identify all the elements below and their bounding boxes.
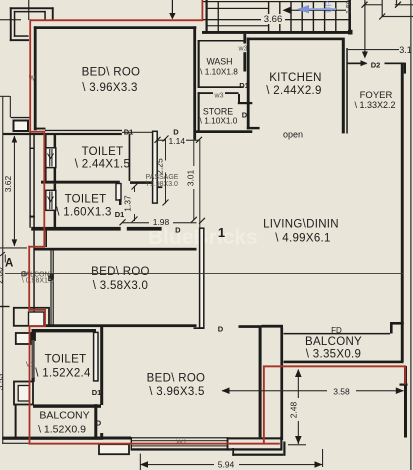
- foyer top right corner stub: [404, 63, 406, 74]
- svg-text:D: D: [218, 325, 224, 334]
- corner column top-left inner: [14, 11, 46, 37]
- stair treads: [218, 1, 337, 32]
- small tick below A: [0, 252, 5, 256]
- svg-text:1.98: 1.98: [153, 217, 170, 227]
- A marker: [5, 255, 14, 270]
- staircase top line: [202, 1, 351, 2]
- svg-text:D1: D1: [92, 388, 102, 397]
- svg-text:D: D: [175, 226, 181, 235]
- svg-text:\ 1.10X1.8: \ 1.10X1.8: [200, 67, 238, 77]
- svg-text:KITCHEN: KITCHEN: [269, 72, 322, 84]
- kitchen walls: [247, 38, 345, 134]
- 3.66 dim label: [261, 14, 285, 25]
- svg-text:BALCONY: BALCONY: [39, 410, 89, 422]
- svg-text:D1: D1: [124, 128, 134, 137]
- dim 1.98: [120, 217, 206, 227]
- svg-text:1: 1: [218, 225, 225, 240]
- svg-text:3.53: 3.53: [0, 373, 5, 390]
- wash room walls: [198, 40, 244, 88]
- svg-text:1.37: 1.37: [122, 195, 132, 212]
- toilet 1 window: [46, 148, 56, 168]
- toilet 1 left wall: [54, 135, 57, 182]
- dim 5.94: [140, 449, 323, 470]
- corner column top-left outer: [10, 7, 54, 41]
- svg-text:BALCONY: BALCONY: [305, 336, 362, 348]
- svg-text:\ 1.98X3.0: \ 1.98X3.0: [146, 181, 178, 188]
- bedroom 2 walls: [30, 248, 197, 327]
- svg-text:\ 1.52X2.4: \ 1.52X2.4: [35, 368, 91, 380]
- bedroom 3 walls: [97, 325, 284, 440]
- thin line bottom left: [2, 443, 29, 444]
- living wall bottom foot: [194, 327, 205, 329]
- toilet 2 right wall: [116, 184, 122, 206]
- svg-text:BED\ ROO: BED\ ROO: [91, 266, 150, 278]
- left edge stub line: [0, 306, 10, 307]
- toilet 1 door jamb bar: [153, 131, 158, 203]
- foyer top door line: [347, 63, 367, 65]
- balcony 3 walls: [2, 404, 103, 440]
- toilet 3 right wall hollow: [94, 332, 98, 381]
- toilet 3 left wall gray band: [32, 340, 35, 378]
- staircase mid landing line: [202, 19, 351, 20]
- svg-text:\ 3.35X0.9: \ 3.35X0.9: [306, 349, 361, 361]
- svg-text:D: D: [96, 419, 102, 428]
- window column left wall: [11, 117, 31, 131]
- svg-text:\ 1.10X1.0: \ 1.10X1.0: [200, 116, 238, 126]
- store bottom thick wall: [196, 130, 252, 133]
- staircase flight line: [207, 8, 269, 9]
- toilet 2 left wall: [54, 184, 57, 228]
- svg-text:w3: w3: [238, 46, 248, 53]
- svg-text:1.14: 1.14: [169, 136, 186, 146]
- window W1: [131, 437, 283, 450]
- section line A-A: [5, 272, 404, 275]
- toilet 1 box: [31, 134, 162, 231]
- column box mid-left outer: [14, 308, 49, 326]
- dim 3.58 bottom right: [222, 386, 404, 397]
- svg-text:\ 3.96X3.3: \ 3.96X3.3: [82, 82, 137, 94]
- outer boundary right line: [410, 0, 411, 470]
- svg-text:TOILET: TOILET: [65, 194, 107, 206]
- store room walls: [198, 92, 240, 131]
- vertical dim line x364: [364, 0, 365, 56]
- svg-text:BED\ ROO: BED\ ROO: [147, 373, 206, 385]
- dim 2.48: [288, 369, 306, 445]
- dim 1.37: [122, 184, 137, 223]
- svg-text:5.94: 5.94: [218, 460, 235, 470]
- svg-text:BED\ ROO: BED\ ROO: [82, 67, 141, 79]
- svg-text:\ 1.33X2.2: \ 1.33X2.2: [354, 100, 395, 110]
- toilet 2 window: [46, 190, 56, 210]
- column box bottom-left inner: [18, 386, 29, 402]
- wash door sill: [238, 102, 253, 104]
- top line above A area: [0, 247, 27, 248]
- svg-text:w3: w3: [214, 93, 224, 100]
- passage-living wall (hollow): [200, 228, 204, 328]
- dim 2.25: [154, 136, 170, 206]
- thin extension line x199: [199, 140, 200, 228]
- svg-text:3.1: 3.1: [399, 45, 412, 55]
- svg-text:\ 2.44X1.5: \ 2.44X1.5: [75, 159, 130, 171]
- balcony 2 walls: [284, 322, 408, 438]
- bottom right corner pieces: [232, 437, 285, 456]
- svg-text:\ 3.58X3.0: \ 3.58X3.0: [93, 280, 148, 292]
- svg-text:3.58: 3.58: [333, 387, 350, 397]
- section tick circle: [22, 271, 26, 275]
- side balcony strip walls: [29, 132, 47, 325]
- svg-text:3.62: 3.62: [3, 175, 13, 192]
- svg-text:open: open: [283, 130, 303, 140]
- stair direction line with arrow: [283, 7, 347, 14]
- left top tick: [0, 96, 10, 97]
- svg-text:TOILET: TOILET: [82, 146, 124, 158]
- svg-text:FD: FD: [331, 326, 342, 335]
- svg-text:TOILET: TOILET: [45, 354, 87, 366]
- bedroom 1 walls: [3, 26, 197, 140]
- top-right dim lines: [365, 0, 413, 17]
- foyer left wall line: [346, 48, 348, 134]
- staircase landing junction blob: [348, 30, 353, 35]
- dim 3.62 left: [3, 136, 17, 247]
- svg-text:LIVING\DININ: LIVING\DININ: [263, 219, 339, 231]
- svg-text:UP: UP: [324, 1, 334, 13]
- svg-text:\ 2.44X2.9: \ 2.44X2.9: [266, 85, 321, 97]
- column box mid-left inner: [29, 312, 45, 326]
- living east wall: [401, 63, 404, 363]
- slash ticks: [362, 2, 402, 20]
- blue UP arrow: [297, 5, 337, 13]
- svg-text:\ 1.60X1.3: \ 1.60X1.3: [56, 207, 111, 219]
- staircase left wall: [206, 0, 208, 32]
- arrow into red top wall: [169, 0, 175, 20]
- svg-text:\ 3.96X3.5: \ 3.96X3.5: [149, 386, 204, 398]
- svg-text:D: D: [48, 274, 54, 283]
- left tick line at corner: [0, 19, 21, 20]
- staircase right wall: [348, 0, 351, 34]
- svg-text:2.00: 2.00: [0, 267, 5, 284]
- w3 labels: [213, 44, 249, 100]
- svg-text:1.50: 1.50: [346, 0, 353, 14]
- svg-text:\ 4.99X6.1: \ 4.99X6.1: [275, 233, 330, 245]
- 3.1 dim line: [348, 45, 412, 55]
- staircase flight line 2: [207, 25, 269, 26]
- dim 1.14: [155, 136, 203, 146]
- left boundary thin line: [2, 96, 3, 443]
- svg-text:3.66: 3.66: [264, 14, 283, 25]
- staircase bottom wall: [202, 31, 352, 34]
- dim 3.01: [186, 140, 199, 223]
- svg-text:D2: D2: [371, 61, 381, 70]
- svg-text:2.25: 2.25: [154, 158, 164, 175]
- column box bottom-left outer: [14, 382, 33, 405]
- svg-text:3.01: 3.01: [186, 169, 196, 186]
- short line above corner column: [28, 0, 29, 20]
- column box below: [16, 333, 31, 344]
- svg-text:WASH: WASH: [206, 57, 232, 67]
- step box below bed3: [99, 444, 129, 454]
- svg-text:A: A: [5, 258, 13, 270]
- svg-text:2.48: 2.48: [288, 401, 298, 418]
- toilet 3 walls: [32, 329, 97, 382]
- wash-kitchen wall: [243, 34, 246, 72]
- svg-text:\ 1.52X0.9: \ 1.52X0.9: [38, 424, 86, 436]
